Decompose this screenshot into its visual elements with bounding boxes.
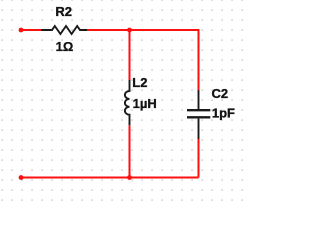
svg-text:1Ω: 1Ω	[56, 39, 74, 54]
svg-text:L2: L2	[132, 75, 147, 90]
svg-text:C2: C2	[212, 86, 229, 101]
svg-text:1µH: 1µH	[133, 96, 157, 111]
svg-text:R2: R2	[55, 4, 72, 19]
svg-text:1pF: 1pF	[212, 106, 235, 121]
